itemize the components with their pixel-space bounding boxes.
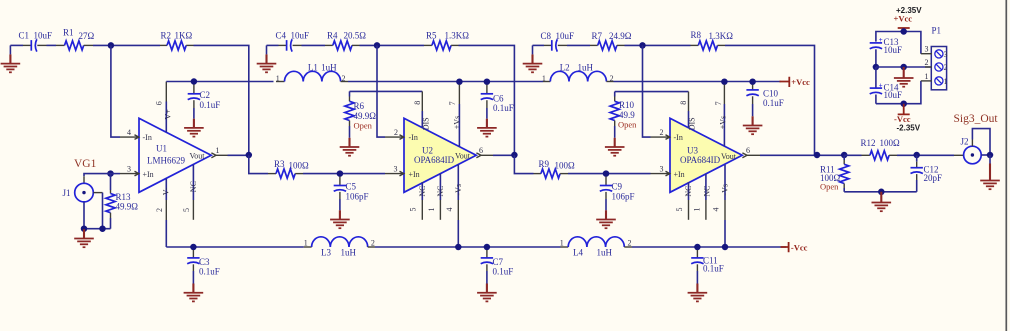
svg-text:106pF: 106pF — [346, 191, 369, 201]
svg-text:R5: R5 — [426, 30, 437, 40]
svg-text:0.1uF: 0.1uF — [199, 267, 220, 277]
svg-text:4: 4 — [445, 208, 454, 212]
svg-text:2: 2 — [660, 128, 664, 137]
op-amp U2 OPA684ID — [404, 118, 476, 192]
node -Vcc — [900, 100, 907, 107]
node U2 out — [511, 152, 518, 159]
svg-text:V+: V+ — [163, 109, 172, 120]
pin 5 (NC) — [182, 164, 198, 219]
pin 2 — [925, 58, 932, 67]
svg-text:-Vs: -Vs — [454, 184, 463, 196]
svg-text:49.9Ω: 49.9Ω — [116, 202, 139, 212]
pin 4 (-In) — [120, 128, 139, 140]
wire: R10 to U3 DIS — [615, 91, 689, 93]
node C7 — [484, 244, 491, 251]
sheet border right edge — [1005, 0, 1007, 331]
svg-text:3: 3 — [660, 165, 664, 174]
svg-text:2: 2 — [155, 208, 164, 212]
node C2 — [191, 78, 198, 85]
resistor R6 (Open) — [345, 91, 376, 137]
capacitor C10 — [746, 85, 783, 117]
ground (C7) — [477, 284, 497, 302]
wire: V+ row to U2 — [348, 81, 543, 83]
capacitor C14 — [870, 67, 902, 104]
capacitor C1 — [19, 31, 53, 52]
svg-text:+In: +In — [143, 170, 154, 179]
svg-text:2: 2 — [610, 74, 614, 83]
svg-text:C6: C6 — [493, 94, 504, 104]
inductor L3 — [304, 237, 375, 258]
svg-text:C10: C10 — [763, 89, 779, 99]
svg-text:C4: C4 — [276, 31, 287, 41]
svg-text:-In: -In — [143, 133, 152, 142]
svg-text:-Vcc: -Vcc — [894, 114, 911, 124]
capacitor C7 — [481, 250, 514, 284]
svg-text:4: 4 — [127, 128, 131, 137]
connector P1 — [931, 25, 947, 90]
svg-text:6: 6 — [479, 146, 483, 155]
svg-text:3: 3 — [127, 164, 131, 173]
svg-text:+Vcc: +Vcc — [791, 77, 810, 87]
wire — [10, 44, 23, 46]
svg-text:0.1uF: 0.1uF — [703, 264, 724, 274]
wire: U1 out down to R3 row — [249, 155, 268, 173]
svg-text:Open: Open — [820, 181, 839, 191]
svg-text:1: 1 — [216, 146, 220, 155]
svg-text:1.3KΩ: 1.3KΩ — [709, 31, 734, 41]
wire — [360, 44, 425, 46]
capacitor C9 — [600, 177, 635, 211]
pin 6 (V+) — [155, 82, 173, 133]
svg-text:V-: V- — [161, 187, 170, 195]
svg-text:U1: U1 — [156, 144, 167, 154]
inductor L1 — [276, 62, 348, 83]
wire: R11/C12 bottom bracket — [844, 191, 917, 193]
pin 8 (DIS) — [679, 92, 697, 131]
node R11/R12 — [841, 152, 848, 159]
svg-text:C2: C2 — [200, 90, 211, 100]
ground (P1 mid) — [894, 67, 914, 87]
svg-text:0.1uF: 0.1uF — [200, 100, 221, 110]
svg-text:-In: -In — [409, 133, 418, 142]
resistor R10 (Open) — [610, 92, 637, 138]
svg-text:1: 1 — [944, 77, 948, 86]
svg-text:1uH: 1uH — [341, 247, 357, 257]
wire to J1 — [84, 174, 111, 177]
wire: V+ row stage1 — [166, 81, 273, 83]
pin 1 (NC) — [427, 174, 445, 220]
svg-text:C5: C5 — [346, 182, 357, 192]
wire: junction down to U3 -In — [643, 45, 651, 137]
pin 7 (+Vs) — [714, 85, 728, 147]
capacitor C6 — [481, 85, 514, 119]
svg-text:106pF: 106pF — [612, 192, 635, 202]
pin 5 (NC) — [675, 182, 693, 220]
svg-text:OPA684ID: OPA684ID — [414, 155, 455, 165]
wire: R8 right to U3 output (feedback) — [725, 45, 815, 155]
svg-text:NC: NC — [436, 185, 445, 196]
svg-text:1: 1 — [304, 239, 308, 248]
wire: pin2 to -Vcc rail — [165, 220, 167, 247]
resistor R2 — [160, 31, 194, 50]
svg-text:10uF: 10uF — [34, 31, 53, 41]
node R4/R5 junction — [374, 42, 381, 49]
svg-text:0.1uF: 0.1uF — [763, 98, 784, 108]
ground (C8 left) — [523, 45, 543, 72]
ground (J2) — [980, 164, 1000, 190]
node C3 — [190, 244, 197, 251]
svg-text:R10: R10 — [619, 100, 635, 110]
power port +Vcc (top) — [894, 14, 913, 32]
svg-text:+Vs: +Vs — [718, 116, 727, 129]
resistor R4 — [325, 31, 366, 50]
pin 3 (+In) — [385, 164, 404, 176]
node C10 — [749, 78, 756, 85]
capacitor C5 — [334, 177, 369, 211]
svg-text:Vout: Vout — [190, 152, 206, 161]
wire — [93, 44, 160, 46]
svg-text:1: 1 — [276, 74, 280, 83]
wire down — [989, 155, 991, 164]
node C6 — [484, 78, 491, 85]
svg-text:5: 5 — [675, 208, 684, 212]
wire: R6 to U2 DIS — [350, 90, 423, 92]
wire — [568, 173, 651, 175]
svg-text:NC: NC — [418, 185, 427, 196]
svg-text:OPA684ID: OPA684ID — [680, 155, 721, 165]
pin 4 (-Vs) — [712, 165, 730, 220]
svg-text:10uF: 10uF — [291, 31, 310, 41]
svg-text:R2: R2 — [161, 31, 172, 41]
svg-text:R9: R9 — [539, 159, 550, 169]
svg-text:8: 8 — [413, 101, 422, 105]
wire — [897, 154, 954, 156]
svg-text:+: + — [879, 36, 883, 44]
ground (C5) — [330, 210, 350, 228]
wire: J1 shield — [93, 192, 102, 194]
wire: J2 right — [981, 154, 990, 156]
wire: U3 out — [760, 154, 844, 156]
pin 4 (-Vs) — [445, 165, 463, 221]
capacitor C11 — [691, 250, 724, 284]
connector J1 — [63, 183, 94, 202]
ground (R10) — [605, 138, 625, 156]
svg-text:10uF: 10uF — [556, 31, 575, 41]
pin 3 (+In) — [651, 165, 671, 176]
svg-text:Vout: Vout — [721, 152, 737, 161]
capacitor C8 — [533, 31, 575, 52]
svg-text:Vout: Vout — [455, 152, 471, 161]
svg-text:Open: Open — [618, 119, 637, 129]
wire: middle row — [876, 66, 932, 68]
wire — [303, 173, 385, 175]
pin 2 (-In) — [385, 128, 404, 140]
resistor R13 — [106, 174, 138, 229]
svg-text:24.9Ω: 24.9Ω — [609, 31, 632, 41]
power port -Vcc (bottom) — [894, 104, 911, 124]
svg-text:VG1: VG1 — [74, 158, 97, 170]
svg-text:+Vs: +Vs — [452, 116, 461, 129]
svg-text:+In: +In — [409, 170, 420, 179]
pin 3 (+In) — [120, 164, 139, 176]
node C9 — [603, 170, 610, 177]
wire — [625, 44, 691, 46]
svg-text:1uH: 1uH — [578, 62, 594, 72]
svg-text:+Vcc: +Vcc — [894, 14, 913, 24]
capacitor C3 — [187, 250, 220, 284]
ground (C6) — [477, 119, 497, 137]
pin 7 (+Vs) — [448, 85, 462, 147]
resistor R5 — [424, 30, 469, 50]
svg-text:20.5Ω: 20.5Ω — [344, 31, 367, 41]
svg-text:J2: J2 — [961, 137, 969, 147]
svg-text:C9: C9 — [612, 182, 623, 192]
wire: V- row to -Vcc port — [632, 246, 786, 248]
node bracket gnd — [878, 189, 885, 196]
svg-text:C7: C7 — [493, 257, 504, 267]
svg-text:0.1uF: 0.1uF — [493, 267, 514, 277]
svg-text:20pF: 20pF — [924, 173, 943, 183]
svg-text:-In: -In — [674, 133, 683, 142]
node J2 gnd — [987, 152, 994, 159]
svg-text:NC: NC — [189, 181, 198, 192]
svg-text:2: 2 — [628, 238, 632, 247]
wire: J1 bottom to ground rail — [84, 202, 111, 229]
wire: V- row stage1 — [166, 246, 303, 248]
node U1 out — [246, 152, 253, 159]
svg-text:1: 1 — [560, 239, 564, 248]
svg-text:1: 1 — [693, 208, 702, 212]
svg-text:4: 4 — [712, 208, 721, 212]
wire: Vout to feedback node — [228, 154, 249, 156]
svg-text:R4: R4 — [327, 31, 338, 41]
svg-text:C3: C3 — [199, 257, 210, 267]
node U2 pin7 — [456, 78, 463, 85]
svg-text:C8: C8 — [541, 31, 552, 41]
pin 6 (Vout) — [742, 146, 760, 158]
svg-text:R6: R6 — [354, 101, 365, 111]
svg-text:1KΩ: 1KΩ — [175, 31, 193, 41]
ground (C11) — [688, 284, 708, 302]
svg-text:1: 1 — [427, 208, 436, 212]
svg-text:NC: NC — [684, 185, 693, 196]
node mid-left — [873, 64, 880, 71]
svg-text:1uH: 1uH — [597, 247, 613, 257]
wire: U2 out down to R9 row — [514, 155, 533, 173]
ground (VG1) — [74, 229, 94, 247]
svg-text:-2.35V: -2.35V — [897, 124, 921, 133]
svg-text:6: 6 — [746, 146, 750, 155]
svg-text:100Ω: 100Ω — [289, 161, 310, 171]
svg-text:+: + — [879, 81, 883, 89]
svg-text:+In: +In — [674, 170, 685, 179]
node U3 pin4 — [722, 244, 729, 251]
node C5 — [337, 170, 344, 177]
svg-text:3: 3 — [944, 50, 948, 59]
wire: junction down to U1 -In — [111, 45, 120, 137]
ground (C10) — [743, 116, 763, 134]
svg-text:0.1uF: 0.1uF — [493, 103, 514, 113]
svg-text:R1: R1 — [63, 28, 74, 38]
resistor R12 — [844, 138, 900, 160]
svg-text:R7: R7 — [592, 31, 603, 41]
svg-text:R3: R3 — [274, 159, 285, 169]
svg-text:-Vcc: -Vcc — [791, 243, 808, 253]
wire: R5 right to U2 output (feedback) — [459, 45, 515, 155]
svg-text:C1: C1 — [19, 31, 30, 41]
node C12 — [913, 152, 920, 159]
svg-text:L4: L4 — [573, 247, 583, 257]
capacitor C12 — [911, 155, 943, 192]
svg-text:1: 1 — [925, 72, 929, 81]
svg-text:10uF: 10uF — [884, 45, 903, 55]
wire: junction down to U2 -In — [377, 45, 385, 137]
pin 1 (Vout) — [211, 146, 227, 158]
ground (C4 left) — [257, 45, 277, 72]
svg-text:P1: P1 — [932, 25, 942, 35]
node R7/R8 junction — [639, 42, 646, 49]
pin 8 (DIS) — [413, 91, 430, 130]
svg-text:100Ω: 100Ω — [880, 138, 901, 148]
node R1/R2 junction — [108, 42, 115, 49]
svg-text:1.3KΩ: 1.3KΩ — [445, 30, 470, 40]
wire: pin4 to -Vcc rail — [457, 220, 459, 247]
node +In — [107, 170, 114, 177]
svg-text:LMH6629: LMH6629 — [147, 155, 185, 165]
svg-text:7: 7 — [448, 101, 457, 105]
svg-text:5: 5 — [409, 208, 418, 212]
pin 2 (V-) — [155, 178, 170, 220]
op-amp U3 OPA684ID — [670, 118, 742, 192]
svg-text:10uF: 10uF — [884, 90, 903, 100]
svg-text:49.9Ω: 49.9Ω — [354, 111, 377, 121]
resistor R7 — [590, 31, 632, 50]
svg-text:7: 7 — [714, 101, 723, 105]
pin 1 — [921, 72, 932, 81]
capacitor C4 — [267, 31, 310, 52]
svg-text:L3: L3 — [321, 247, 331, 257]
node J1 gnd — [81, 225, 88, 232]
inductor L4 — [560, 237, 632, 258]
svg-text:-Vs: -Vs — [721, 184, 730, 196]
ground (C2) — [184, 119, 204, 137]
node U2 pin4 — [455, 244, 462, 251]
svg-text:Open: Open — [354, 121, 373, 131]
connector J2 — [961, 137, 982, 164]
pin 2 (-In) — [651, 128, 671, 140]
svg-text:6: 6 — [155, 101, 164, 105]
svg-text:DIS: DIS — [688, 117, 697, 130]
node U3 pin7 — [721, 78, 728, 85]
wire — [375, 246, 561, 248]
wire — [302, 44, 326, 46]
svg-text:J1: J1 — [63, 188, 71, 198]
ground (C3) — [184, 284, 204, 302]
capacitor C13 — [870, 36, 902, 67]
wire: J2 shield loop — [971, 140, 973, 147]
power port -Vcc (right) — [781, 242, 808, 253]
svg-text:Sig3_Out: Sig3_Out — [954, 113, 999, 125]
wire to +In pin — [111, 173, 121, 175]
ground (C1 left) — [1, 45, 21, 72]
ground (R11/C12) — [872, 192, 892, 211]
pin 3 — [921, 45, 932, 54]
ground (C9) — [596, 210, 616, 228]
pin 1 (NC) — [693, 174, 712, 220]
svg-text:8: 8 — [679, 101, 688, 105]
svg-text:DIS: DIS — [421, 117, 430, 130]
resistor R9 — [534, 159, 576, 178]
wire: U2 out — [493, 154, 514, 156]
svg-text:5: 5 — [182, 208, 191, 212]
svg-text:NC: NC — [702, 185, 711, 196]
node mid gnd — [900, 64, 907, 71]
svg-text:2: 2 — [925, 58, 929, 67]
svg-text:2: 2 — [944, 63, 948, 72]
resistor R1 — [56, 28, 95, 50]
svg-text:3: 3 — [925, 45, 929, 54]
wire: bottom rail — [876, 81, 921, 104]
svg-text:L1: L1 — [308, 62, 318, 72]
wire: R2 right to U1 output (feedback) — [194, 45, 249, 155]
ground (R6) — [340, 138, 360, 156]
svg-text:R8: R8 — [691, 30, 702, 40]
svg-text:2: 2 — [371, 238, 375, 247]
svg-text:R12: R12 — [861, 138, 876, 148]
wire: top rail — [876, 32, 921, 54]
node R8 feedback — [814, 152, 821, 159]
resistor R8 — [691, 30, 734, 50]
power port +Vcc (right) — [780, 77, 811, 87]
resistor R3 — [268, 159, 309, 178]
wire — [47, 44, 57, 46]
node C11 — [694, 244, 701, 251]
svg-text:L2: L2 — [560, 62, 570, 72]
wire — [567, 44, 590, 46]
node +Vcc — [900, 28, 907, 35]
wire: V+ row to +Vcc port — [614, 81, 781, 83]
node shield gnd — [99, 225, 106, 232]
capacitor C2 — [188, 85, 221, 119]
inductor L2 — [542, 62, 614, 83]
svg-text:27Ω: 27Ω — [79, 31, 95, 41]
pin 5 (NC) — [409, 182, 427, 220]
resistor R11 (Open) — [820, 155, 849, 192]
svg-text:2: 2 — [394, 128, 398, 137]
wire: pin4 to -Vcc rail — [724, 220, 726, 247]
pin 6 (Vout) — [476, 146, 493, 158]
svg-text:2: 2 — [342, 74, 346, 83]
svg-text:3: 3 — [394, 164, 398, 173]
svg-text:100Ω: 100Ω — [555, 161, 576, 171]
svg-text:1uH: 1uH — [321, 62, 337, 72]
svg-text:1: 1 — [542, 74, 546, 83]
